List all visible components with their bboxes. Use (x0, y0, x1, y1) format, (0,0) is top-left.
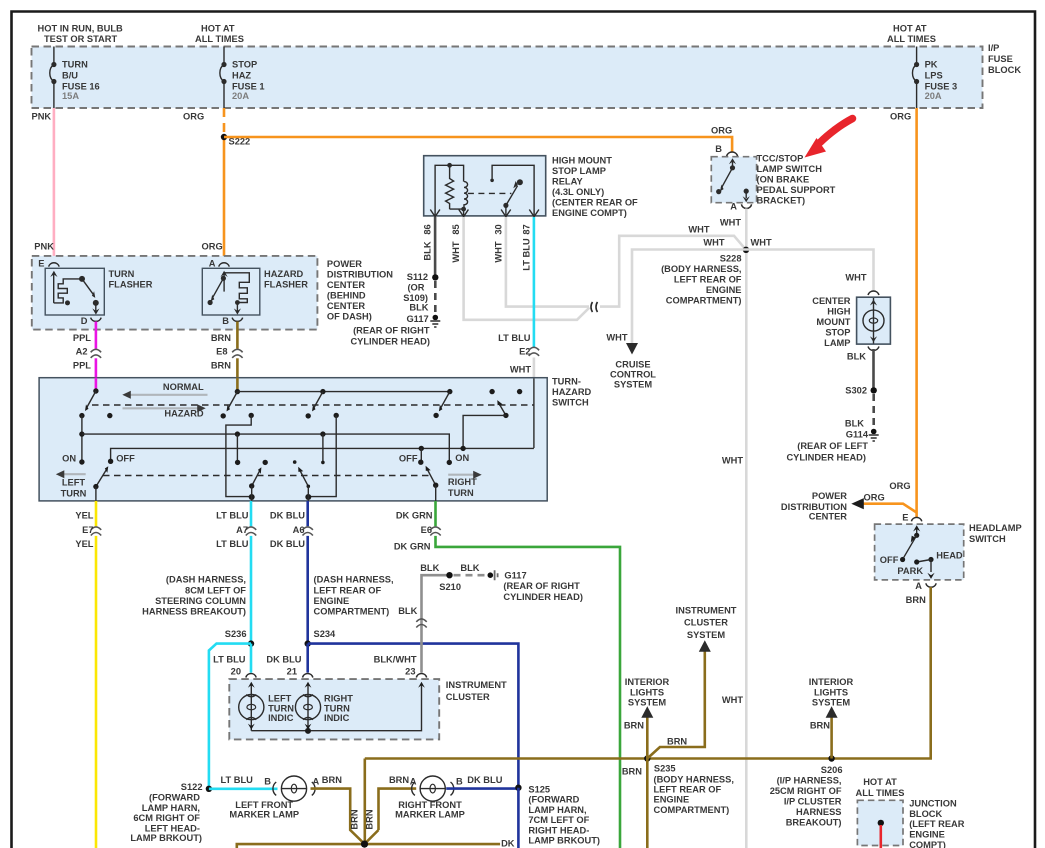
svg-text:LT BLU: LT BLU (216, 539, 249, 549)
svg-text:INTERIOR: INTERIOR (625, 677, 670, 687)
svg-text:POWER: POWER (812, 491, 847, 501)
svg-text:INSTRUMENT: INSTRUMENT (676, 606, 737, 616)
svg-text:DK BLU: DK BLU (270, 511, 305, 521)
svg-text:(4.3L ONLY): (4.3L ONLY) (552, 187, 604, 197)
svg-text:85: 85 (451, 224, 461, 234)
svg-text:BRN: BRN (211, 360, 231, 370)
svg-text:23: 23 (405, 667, 415, 677)
svg-text:A: A (730, 202, 737, 212)
svg-text:RIGHT: RIGHT (448, 477, 477, 487)
svg-text:SWITCH: SWITCH (969, 534, 1006, 544)
svg-text:HAZARD: HAZARD (264, 269, 304, 279)
svg-text:ALL TIMES: ALL TIMES (195, 34, 244, 44)
svg-text:OFF: OFF (116, 454, 135, 464)
svg-text:(BODY HARNESS,: (BODY HARNESS, (661, 264, 741, 274)
svg-text:LAMP HARN,: LAMP HARN, (528, 805, 586, 815)
svg-text:DK GRN: DK GRN (396, 511, 433, 521)
svg-text:WHT: WHT (493, 241, 503, 262)
svg-text:HEADLAMP: HEADLAMP (969, 523, 1022, 533)
svg-text:(LEFT REAR: (LEFT REAR (909, 819, 965, 829)
svg-text:HOT IN RUN, BULB: HOT IN RUN, BULB (38, 24, 124, 34)
svg-text:JUNCTION: JUNCTION (909, 799, 957, 809)
svg-text:WHT: WHT (510, 365, 531, 375)
svg-text:COMPARTMENT): COMPARTMENT) (654, 805, 730, 815)
svg-text:WHT: WHT (606, 333, 627, 343)
svg-text:LT BLU: LT BLU (522, 238, 532, 271)
svg-text:I/P: I/P (988, 43, 999, 53)
svg-text:E6: E6 (421, 525, 432, 535)
svg-text:LT BLU: LT BLU (221, 775, 254, 785)
svg-text:INTERIOR: INTERIOR (809, 677, 854, 687)
svg-text:BRN: BRN (365, 809, 375, 829)
svg-text:21: 21 (287, 667, 297, 677)
svg-text:BRN: BRN (389, 775, 409, 785)
svg-text:OF DASH): OF DASH) (327, 311, 372, 321)
svg-text:HIGH: HIGH (827, 306, 851, 316)
svg-text:DK BLU: DK BLU (270, 539, 305, 549)
svg-text:MARKER LAMP: MARKER LAMP (229, 809, 299, 819)
svg-text:FUSE 1: FUSE 1 (232, 82, 265, 92)
svg-text:HAZARD: HAZARD (552, 387, 592, 397)
svg-text:G117: G117 (406, 314, 428, 324)
svg-text:LEFT HEAD-: LEFT HEAD- (145, 823, 200, 833)
svg-text:(DASH HARNESS,: (DASH HARNESS, (166, 575, 246, 585)
svg-text:HAZ: HAZ (232, 71, 251, 81)
svg-text:BRN: BRN (624, 721, 644, 731)
svg-text:BLK/WHT: BLK/WHT (374, 654, 417, 664)
svg-text:BLK: BLK (409, 303, 428, 313)
svg-text:S236: S236 (225, 629, 247, 639)
svg-text:87: 87 (522, 224, 532, 234)
svg-text:(REAR OF RIGHT: (REAR OF RIGHT (503, 581, 580, 591)
svg-text:HARNESS BREAKOUT): HARNESS BREAKOUT) (142, 607, 246, 617)
svg-text:HOT AT: HOT AT (863, 777, 897, 787)
svg-text:PPL: PPL (73, 333, 91, 343)
svg-text:S302: S302 (845, 386, 867, 396)
svg-text:A7: A7 (236, 525, 248, 535)
svg-text:LAMP BRKOUT): LAMP BRKOUT) (528, 836, 600, 846)
svg-text:STOP LAMP: STOP LAMP (552, 166, 606, 176)
svg-text:TURN: TURN (61, 489, 87, 499)
svg-text:ENGINE: ENGINE (909, 830, 945, 840)
svg-text:PK: PK (925, 60, 938, 70)
svg-text:G114: G114 (846, 429, 869, 439)
svg-text:ORG: ORG (890, 112, 911, 122)
svg-text:WHT: WHT (722, 456, 743, 466)
svg-text:20A: 20A (232, 91, 249, 101)
svg-text:BRACKET): BRACKET) (757, 196, 806, 206)
svg-text:NORMAL: NORMAL (163, 382, 204, 392)
svg-text:TEST OR START: TEST OR START (44, 34, 117, 44)
svg-text:CLUSTER: CLUSTER (446, 692, 490, 702)
svg-text:TCC/STOP: TCC/STOP (757, 154, 804, 164)
svg-text:CENTER: CENTER (327, 301, 366, 311)
svg-text:(REAR OF RIGHT: (REAR OF RIGHT (353, 325, 430, 335)
svg-text:TURN: TURN (268, 703, 294, 713)
svg-text:BRN: BRN (622, 767, 642, 777)
svg-text:G117: G117 (504, 571, 526, 581)
svg-text:DISTRIBUTION: DISTRIBUTION (327, 269, 393, 279)
svg-text:STOP: STOP (232, 60, 257, 70)
svg-text:BLK: BLK (423, 241, 433, 260)
svg-text:TURN-: TURN- (552, 377, 581, 387)
svg-text:ENGINE: ENGINE (654, 795, 690, 805)
svg-text:ORG: ORG (202, 242, 223, 252)
svg-text:SWITCH: SWITCH (552, 398, 589, 408)
svg-text:E: E (38, 259, 44, 269)
svg-text:LIGHTS: LIGHTS (630, 687, 664, 697)
svg-text:D: D (81, 316, 88, 326)
svg-text:E: E (902, 512, 908, 522)
svg-text:MOUNT: MOUNT (816, 317, 850, 327)
svg-text:DK: DK (501, 839, 515, 848)
svg-text:ALL TIMES: ALL TIMES (856, 788, 905, 798)
svg-text:S122: S122 (181, 782, 203, 792)
svg-text:ENGINE: ENGINE (314, 596, 350, 606)
svg-text:(BODY HARNESS,: (BODY HARNESS, (654, 774, 734, 784)
svg-text:LT BLU: LT BLU (498, 333, 531, 343)
svg-text:CENTER: CENTER (327, 280, 366, 290)
svg-text:(CENTER REAR OF: (CENTER REAR OF (552, 198, 638, 208)
svg-text:BLK: BLK (460, 563, 479, 573)
svg-text:8CM LEFT OF: 8CM LEFT OF (185, 585, 246, 595)
svg-text:SYSTEM: SYSTEM (812, 697, 850, 707)
svg-text:A: A (313, 777, 320, 787)
svg-text:OFF: OFF (399, 454, 418, 464)
svg-text:MARKER LAMP: MARKER LAMP (395, 809, 465, 819)
svg-text:RIGHT HEAD-: RIGHT HEAD- (528, 825, 589, 835)
svg-text:BRN: BRN (322, 775, 342, 785)
svg-text:PNK: PNK (32, 112, 52, 122)
svg-text:WHT: WHT (688, 225, 709, 235)
svg-text:LT BLU: LT BLU (216, 511, 249, 521)
svg-text:LPS: LPS (925, 71, 943, 81)
svg-text:DK GRN: DK GRN (394, 542, 431, 552)
svg-text:TURN: TURN (62, 60, 88, 70)
svg-text:(ON BRAKE: (ON BRAKE (757, 175, 810, 185)
svg-text:LAMP HARN,: LAMP HARN, (142, 803, 200, 813)
svg-text:S112: S112 (407, 272, 428, 282)
svg-text:ORG: ORG (183, 112, 204, 122)
svg-text:WHT: WHT (751, 238, 772, 248)
svg-text:DK BLU: DK BLU (467, 775, 502, 785)
svg-text:SYSTEM: SYSTEM (614, 379, 652, 389)
svg-text:B: B (715, 144, 722, 154)
svg-text:30: 30 (493, 224, 503, 234)
svg-text:FUSE 16: FUSE 16 (62, 82, 100, 92)
svg-text:(OR: (OR (407, 283, 424, 293)
svg-text:CYLINDER HEAD): CYLINDER HEAD) (786, 452, 866, 462)
svg-text:TURN: TURN (324, 703, 350, 713)
svg-text:CLUSTER: CLUSTER (684, 618, 728, 628)
svg-text:E7: E7 (82, 525, 93, 535)
svg-text:BLOCK: BLOCK (909, 809, 942, 819)
svg-text:COMPARTMENT): COMPARTMENT) (666, 296, 742, 306)
svg-text:WHT: WHT (703, 238, 724, 248)
svg-text:B: B (456, 777, 463, 787)
svg-text:TURN: TURN (109, 269, 135, 279)
svg-text:RELAY: RELAY (552, 177, 583, 187)
svg-text:LAMP: LAMP (824, 338, 850, 348)
svg-text:CONTROL: CONTROL (610, 369, 656, 379)
svg-text:B: B (222, 316, 229, 326)
svg-text:LIGHTS: LIGHTS (814, 687, 848, 697)
svg-text:HAZARD: HAZARD (164, 409, 204, 419)
svg-text:S210: S210 (439, 582, 461, 592)
svg-text:FLASHER: FLASHER (264, 279, 308, 289)
svg-text:PEDAL SUPPORT: PEDAL SUPPORT (757, 185, 836, 195)
svg-text:B: B (264, 777, 271, 787)
svg-text:BRN: BRN (667, 736, 687, 746)
svg-text:LT BLU: LT BLU (213, 654, 246, 664)
svg-text:WHT: WHT (720, 218, 741, 228)
svg-text:25CM RIGHT OF: 25CM RIGHT OF (770, 786, 842, 796)
svg-text:COMPT): COMPT) (909, 840, 946, 848)
svg-text:20A: 20A (925, 91, 942, 101)
svg-text:A6: A6 (293, 525, 305, 535)
svg-text:ALL TIMES: ALL TIMES (887, 34, 936, 44)
svg-text:FUSE 3: FUSE 3 (925, 82, 958, 92)
svg-text:S206: S206 (821, 765, 843, 775)
svg-text:BLK: BLK (398, 606, 417, 616)
svg-text:BRN: BRN (211, 333, 231, 343)
svg-text:7CM LEFT OF: 7CM LEFT OF (528, 815, 589, 825)
svg-text:S235: S235 (654, 763, 676, 773)
svg-text:A: A (209, 259, 216, 269)
svg-text:CENTER: CENTER (812, 296, 851, 306)
svg-text:S125: S125 (528, 784, 550, 794)
svg-text:(BEHIND: (BEHIND (327, 290, 366, 300)
svg-text:HOT AT: HOT AT (201, 24, 235, 34)
svg-text:LAMP BRKOUT): LAMP BRKOUT) (130, 833, 202, 843)
svg-text:BRN: BRN (906, 595, 926, 605)
svg-text:WHT: WHT (451, 241, 461, 262)
svg-text:BRN: BRN (810, 721, 830, 731)
svg-text:PPL: PPL (73, 360, 91, 370)
svg-text:6CM RIGHT OF: 6CM RIGHT OF (133, 813, 200, 823)
svg-text:BRN: BRN (350, 809, 360, 829)
svg-text:S234: S234 (314, 629, 337, 639)
svg-text:ON: ON (62, 453, 76, 463)
svg-text:20: 20 (231, 667, 241, 677)
svg-text:BREAKOUT): BREAKOUT) (786, 817, 842, 827)
svg-text:TURN: TURN (448, 488, 474, 498)
svg-text:15A: 15A (62, 91, 79, 101)
svg-text:COMPARTMENT): COMPARTMENT) (314, 607, 390, 617)
svg-text:A: A (410, 777, 417, 787)
svg-text:INDIC: INDIC (268, 713, 294, 723)
svg-text:POWER: POWER (327, 259, 362, 269)
svg-text:OFF: OFF (880, 555, 899, 565)
svg-text:S228: S228 (720, 254, 742, 264)
svg-text:BLOCK: BLOCK (988, 65, 1021, 75)
svg-text:(REAR OF LEFT: (REAR OF LEFT (797, 441, 868, 451)
svg-text:ON: ON (455, 453, 469, 463)
svg-text:(I/P HARNESS,: (I/P HARNESS, (777, 775, 842, 785)
svg-text:LEFT REAR OF: LEFT REAR OF (674, 275, 742, 285)
svg-text:ORG: ORG (864, 492, 885, 502)
svg-text:FUSE: FUSE (988, 54, 1013, 64)
svg-text:DK BLU: DK BLU (266, 654, 301, 664)
svg-text:B/U: B/U (62, 71, 78, 81)
svg-text:HEAD: HEAD (936, 551, 963, 561)
svg-text:I/P CLUSTER: I/P CLUSTER (784, 796, 842, 806)
svg-text:A: A (915, 581, 922, 591)
svg-text:ENGINE COMPT): ENGINE COMPT) (552, 208, 627, 218)
svg-text:PNK: PNK (34, 242, 54, 252)
svg-text:HARNESS: HARNESS (796, 807, 841, 817)
svg-text:FLASHER: FLASHER (109, 279, 153, 289)
svg-text:(FORWARD: (FORWARD (528, 795, 579, 805)
svg-text:YEL: YEL (75, 511, 93, 521)
svg-text:WHT: WHT (845, 273, 866, 283)
svg-text:ORG: ORG (711, 126, 732, 136)
svg-text:BLK: BLK (420, 563, 439, 573)
svg-text:LEFT REAR OF: LEFT REAR OF (314, 585, 382, 595)
svg-text:(DASH HARNESS,: (DASH HARNESS, (314, 575, 394, 585)
svg-text:HOT AT: HOT AT (893, 24, 927, 34)
svg-text:STOP: STOP (825, 327, 850, 337)
svg-text:BLK: BLK (845, 418, 864, 428)
svg-text:INSTRUMENT: INSTRUMENT (446, 680, 507, 690)
svg-text:SYSTEM: SYSTEM (628, 697, 666, 707)
svg-text:ENGINE: ENGINE (706, 285, 742, 295)
svg-text:CRUISE: CRUISE (615, 359, 650, 369)
svg-text:CYLINDER HEAD): CYLINDER HEAD) (503, 592, 583, 602)
svg-text:E8: E8 (216, 346, 227, 356)
svg-text:LEFT: LEFT (268, 694, 292, 704)
svg-text:CENTER: CENTER (809, 511, 848, 521)
svg-text:INDIC: INDIC (324, 713, 350, 723)
svg-text:SYSTEM: SYSTEM (687, 630, 725, 640)
svg-text:WHT: WHT (722, 695, 743, 705)
svg-text:HIGH MOUNT: HIGH MOUNT (552, 156, 612, 166)
svg-text:A2: A2 (76, 346, 88, 356)
svg-text:86: 86 (423, 224, 433, 234)
svg-text:STEERING COLUMN: STEERING COLUMN (155, 596, 246, 606)
svg-text:YEL: YEL (75, 539, 93, 549)
svg-text:LAMP SWITCH: LAMP SWITCH (757, 164, 823, 174)
svg-text:(FORWARD: (FORWARD (149, 792, 200, 802)
svg-text:BLK: BLK (847, 352, 866, 362)
svg-text:RIGHT: RIGHT (324, 694, 353, 704)
svg-text:LEFT REAR OF: LEFT REAR OF (654, 785, 722, 795)
svg-text:LEFT: LEFT (62, 478, 86, 488)
svg-text:PARK: PARK (897, 566, 923, 576)
svg-text:CYLINDER HEAD): CYLINDER HEAD) (350, 337, 430, 347)
svg-text:ORG: ORG (889, 481, 910, 491)
